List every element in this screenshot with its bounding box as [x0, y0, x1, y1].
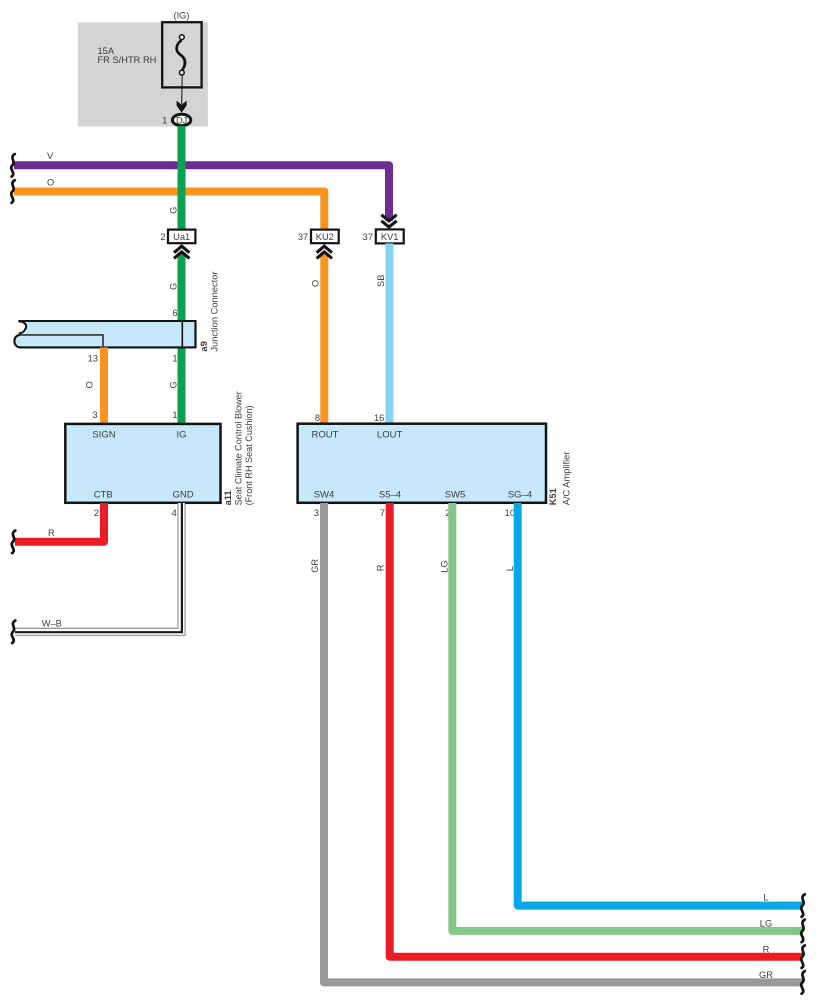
svg-text:1: 1	[172, 354, 177, 364]
svg-text:O: O	[85, 381, 95, 388]
wire W-B from GND to left edge (white wire, outlined)	[15, 503, 182, 632]
break squiggle LG	[801, 920, 805, 943]
svg-text:SB: SB	[376, 275, 386, 287]
svg-text:IG: IG	[176, 430, 186, 441]
wire L from SG-4 to right edge	[518, 503, 803, 906]
svg-text:L: L	[763, 892, 768, 902]
wire SB (sky blue) KV1 to LOUT	[385, 243, 393, 424]
svg-text:1: 1	[172, 410, 177, 420]
svg-text:13: 13	[88, 354, 98, 364]
svg-text:a9: a9	[199, 341, 209, 351]
svg-text:LOUT: LOUT	[377, 430, 403, 441]
chevrons above KV1	[381, 215, 396, 227]
svg-text:W–B: W–B	[42, 618, 62, 628]
a9 pin separator	[181, 321, 183, 347]
fuse rectangle	[162, 22, 201, 87]
svg-text:2: 2	[160, 232, 165, 242]
junction connector a9 body	[16, 322, 196, 347]
svg-text:O: O	[311, 280, 321, 287]
svg-text:10: 10	[505, 508, 515, 518]
break squiggle GR	[801, 971, 805, 994]
svg-text:16: 16	[374, 413, 384, 423]
svg-text:G: G	[168, 207, 178, 214]
wire R from CTB to left edge	[15, 503, 104, 542]
wire R from S5-4 to right edge	[390, 503, 803, 957]
a9 right edge	[194, 320, 196, 348]
svg-text:8: 8	[315, 413, 320, 423]
svg-text:KV1: KV1	[381, 232, 399, 242]
svg-text:6: 6	[172, 308, 177, 318]
svg-text:KU2: KU2	[316, 232, 334, 242]
svg-text:SW4: SW4	[314, 490, 335, 501]
svg-text:R: R	[763, 944, 770, 954]
break squiggle R	[12, 531, 16, 554]
svg-text:O: O	[47, 178, 54, 188]
svg-text:R: R	[375, 564, 385, 571]
svg-text:LG: LG	[440, 560, 450, 572]
fuse element symbol	[177, 40, 185, 70]
break squiggle W-B	[12, 621, 16, 644]
a9 left cap	[14, 335, 20, 347]
chevrons below KU2	[317, 246, 332, 258]
break squiggle V	[11, 154, 15, 177]
svg-text:V: V	[47, 151, 54, 161]
wire GR from SW4 to right edge	[324, 503, 803, 982]
component K51 box	[298, 424, 546, 503]
a9 bottom edge	[19, 346, 196, 348]
a9 inner fold line	[20, 335, 103, 347]
wire LG from SW5 to right edge	[452, 503, 802, 931]
svg-text:K51: K51	[548, 488, 558, 505]
svg-text:SW5: SW5	[445, 490, 466, 501]
break squiggle O	[11, 180, 15, 203]
svg-text:Ua1: Ua1	[173, 232, 190, 242]
break squiggle L	[801, 894, 805, 917]
svg-text:GR: GR	[310, 559, 320, 573]
wire G (green) from DJ down through Ua1 to a9 and a11	[178, 126, 186, 230]
svg-text:SG–4: SG–4	[508, 490, 532, 501]
svg-text:3: 3	[92, 410, 97, 420]
svg-text:(IG): (IG)	[173, 10, 189, 20]
svg-text:A/C Amplifier: A/C Amplifier	[562, 452, 572, 506]
fuse block shading (gray box)	[78, 22, 208, 126]
wire O (orange) horizontal to KU2	[14, 192, 324, 230]
svg-text:a11: a11	[223, 490, 233, 505]
svg-text:Seat Climate Control Blower: Seat Climate Control Blower	[234, 391, 244, 505]
wire V (violet) horizontal to KV1	[14, 165, 389, 220]
break squiggle R right	[801, 945, 805, 968]
svg-text:2: 2	[94, 508, 99, 518]
svg-text:GND: GND	[172, 490, 193, 501]
wire from fuse to connector DJ	[181, 75, 184, 104]
svg-text:S5–4: S5–4	[379, 490, 401, 501]
svg-text:37: 37	[298, 232, 308, 242]
svg-text:FR S/HTR RH: FR S/HTR RH	[98, 55, 157, 65]
a9 top edge with curl	[18, 321, 195, 333]
svg-text:4: 4	[172, 508, 177, 518]
svg-text:CTB: CTB	[94, 490, 113, 501]
chevrons below Ua1	[174, 246, 189, 258]
component a11 box	[65, 424, 220, 503]
svg-text:LG: LG	[760, 918, 772, 928]
svg-text:G: G	[168, 381, 178, 388]
svg-text:DJ: DJ	[176, 115, 187, 125]
svg-text:ROUT: ROUT	[312, 430, 339, 441]
svg-text:3: 3	[314, 508, 319, 518]
svg-text:(Front RH Seat Cushion): (Front RH Seat Cushion)	[244, 405, 254, 505]
svg-text:R: R	[48, 528, 55, 538]
svg-text:SIGN: SIGN	[92, 430, 115, 441]
svg-text:Junction Connector: Junction Connector	[209, 271, 219, 351]
wire O vertical KU2 to ROUT	[320, 253, 328, 424]
wire O from a9 pin 13 to SIGN	[100, 347, 108, 424]
svg-text:7: 7	[380, 508, 385, 518]
svg-text:G: G	[168, 283, 178, 290]
arrowhead	[177, 101, 187, 113]
svg-text:37: 37	[363, 232, 373, 242]
svg-text:L: L	[505, 566, 515, 571]
svg-text:GR: GR	[759, 970, 773, 980]
svg-text:1: 1	[162, 115, 167, 125]
